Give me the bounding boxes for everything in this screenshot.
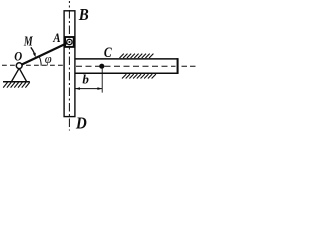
crank OA [19,42,69,66]
ground hatching under O [3,82,30,87]
beam centerline (dash, right part) [76,65,176,67]
point C dot [99,64,104,69]
slider pin circle [67,39,72,44]
rod centerline (dash-dot) [68,1,70,131]
svg-text:φ: φ [45,52,52,66]
svg-text:D: D [75,114,87,133]
upper guide hatching [120,54,154,58]
svg-text:A: A [52,30,60,45]
moment M arc arrow [31,47,35,53]
support triangle at O [12,68,27,81]
crank segment inside slider [65,42,70,44]
pivot O pin [16,63,22,69]
extension line below C [101,69,103,93]
dimension line b [75,88,102,90]
beam (horizontal bar) [76,59,178,73]
svg-text:C: C [104,45,113,61]
svg-text:M: M [23,33,33,48]
svg-text:b: b [82,71,89,86]
horizontal centerline through O (dashed, left part) [2,64,63,66]
ground line under O [3,81,30,83]
beam right end line [177,58,179,74]
slider block at A [65,37,74,47]
svg-text:O: O [14,49,22,64]
angle arc phi [39,56,41,66]
svg-text:B: B [78,5,89,24]
vertical rod BD [64,11,75,117]
lower guide hatching [122,74,156,78]
